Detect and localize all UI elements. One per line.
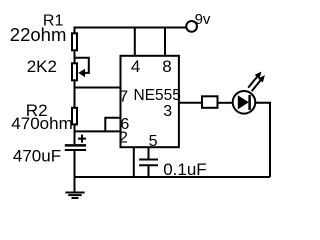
wire: capacitor to ground — [74, 151, 76, 192]
svg-text:22ohm: 22ohm — [10, 24, 67, 45]
svg-text:3: 3 — [163, 103, 172, 120]
svg-text:9v: 9v — [195, 11, 211, 28]
wire: pin 3 to resistor R3 — [179, 102, 202, 104]
wire: node to pin 2 — [75, 130, 121, 132]
potentiometer wiper arrowhead — [78, 69, 85, 77]
svg-text:0.1uF: 0.1uF — [163, 160, 206, 179]
battery terminal 9v circle — [186, 21, 197, 32]
wire: pin 5 to capacitor C2 — [148, 147, 150, 159]
capacitor C1 470uF bottom plate — [65, 149, 86, 151]
op-amp U1 NE555 box — [121, 56, 179, 147]
wire: pin 4 to +9V rail — [134, 28, 136, 57]
capacitor C2 0.1uF top plate — [139, 159, 158, 161]
capacitor C1 470uF top plate — [65, 144, 86, 147]
LED D1 circle — [233, 91, 256, 114]
svg-text:470uF: 470uF — [13, 146, 61, 165]
wire: R1 top lead and +9V top rail — [75, 28, 186, 35]
capacitor C2 0.1uF bottom plate — [139, 164, 158, 166]
wire: R2 bottom to pin2 node — [74, 124, 76, 144]
wire: wiper loop of potentiometer — [75, 58, 89, 73]
resistor R3 body (LED series resistor) — [202, 96, 218, 108]
ground symbol — [65, 193, 84, 199]
LED D1 cathode bar — [248, 95, 251, 110]
wire: bottom ground rail — [75, 176, 271, 178]
wire: capacitor C2 to ground rail — [148, 166, 150, 177]
wire: potentiometer bottom to pin7 node — [74, 80, 76, 108]
wire: node to pin 7 — [75, 87, 121, 89]
potentiometer 2K2 body — [72, 63, 77, 80]
wire: pin 1 to ground rail — [133, 147, 135, 178]
wire: R1 bottom to potentiometer top — [74, 51, 76, 64]
wire: pin 6 stub and drop to pin2 wire — [105, 118, 120, 132]
svg-text:470ohm: 470ohm — [11, 114, 72, 133]
LED D1 triangle — [238, 95, 249, 109]
svg-text:4: 4 — [131, 57, 140, 76]
wire: resistor R3 to LED anode — [218, 102, 234, 104]
wire: pin 8 to +9V rail — [164, 28, 166, 57]
resistor R2 body — [72, 108, 77, 125]
LED arrow 2 — [252, 75, 265, 91]
resistor R1 body — [72, 33, 77, 50]
capacitor C1 470uF plus sign — [78, 135, 86, 143]
LED arrow 1 — [248, 72, 261, 88]
svg-text:2K2: 2K2 — [27, 57, 57, 76]
svg-text:8: 8 — [162, 57, 171, 76]
wire: LED cathode to right rail — [255, 103, 270, 177]
svg-text:NE555: NE555 — [134, 87, 181, 104]
svg-text:2: 2 — [119, 129, 128, 146]
svg-text:5: 5 — [149, 133, 158, 150]
svg-text:7: 7 — [119, 88, 128, 105]
